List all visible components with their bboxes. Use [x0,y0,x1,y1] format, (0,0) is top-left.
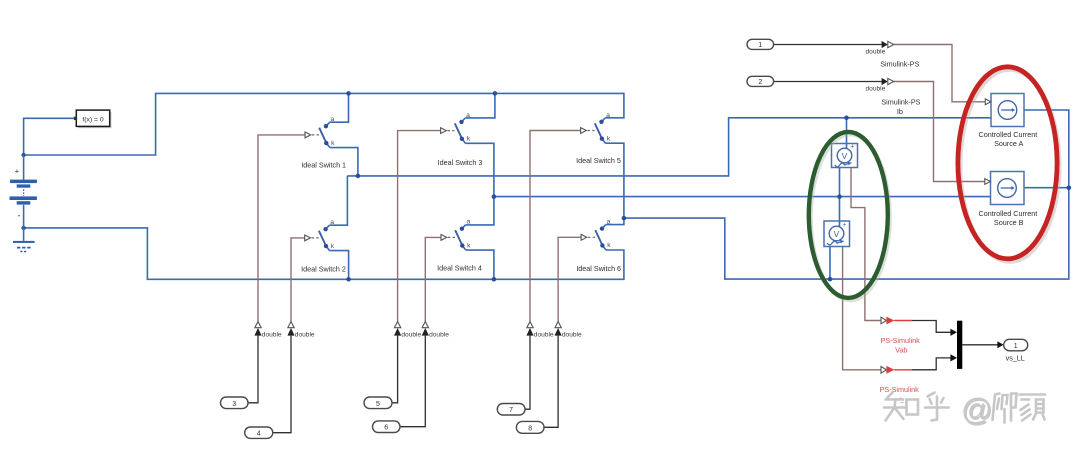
gate converter above port 3 [254,322,261,336]
voltage sensor V1 [832,144,858,168]
svg-text:2: 2 [758,79,762,86]
input port 8 [516,421,544,433]
svg-text:Controlled Current: Controlled Current [979,209,1038,218]
svg-text:Simulink-PS: Simulink-PS [880,59,919,68]
input port 2 [747,76,774,86]
svg-text:Simulink-PS: Simulink-PS [881,97,920,106]
svg-text:double: double [562,331,582,338]
svg-text:+: + [15,167,20,176]
watermark 知乎 @卿颜 [884,392,1046,428]
wire input port 3 to gate converter [248,336,258,403]
input port 5 [364,397,392,409]
annotation green ellipse around voltage sensors [809,132,890,301]
wire node A bus to Controlled Current Source A left port [347,118,991,176]
input port 7 [497,404,525,416]
solver block f(x) = 0 [74,110,112,128]
svg-text:Ib: Ib [897,107,903,116]
converter PS-Simulink Vab arrows [881,317,894,325]
gate converter above port 6 [422,322,429,336]
input port 4 [245,427,273,438]
node bottom bus switch 2 k junction [346,277,351,282]
svg-text:+: + [850,144,854,151]
svg-text:5: 5 [376,401,380,408]
wire Simulink-PS converter 1 output to Controlled Current Source A control input [894,45,985,102]
svg-text:vs_LL: vs_LL [1006,353,1025,362]
wire input port 6 to gate converter [400,336,425,427]
switch U2 Ideal Switch 2 [305,219,335,250]
converter PS-Simulink Vbc arrows [881,366,894,374]
switch U1 Ideal Switch 1 [305,116,335,147]
svg-text:PS-Simulink: PS-Simulink [881,336,921,345]
svg-text:-: - [18,211,21,221]
wire gate converter 4 to Ideal Switch 2 control input [291,238,305,321]
switch U3 Ideal Switch 3 [441,112,471,143]
svg-text:V: V [834,229,840,239]
gate converter above port 4 [287,322,294,336]
battery DC Voltage Source [10,155,37,241]
svg-text:Source A: Source A [994,139,1023,148]
wire node C tap to current source right ports [624,188,1069,279]
output port 1 vs_LL [1004,339,1028,351]
label Controlled Current Source A [979,130,1038,148]
wire input port 8 to gate converter [544,336,558,428]
wire PS-Simulink Vbc converter output to Mux input 2 [894,354,957,370]
wire PS-Simulink Vab converter output to Mux input 1 [894,321,957,336]
svg-text:double: double [865,48,885,55]
op block U8 Controlled Current Source B [985,172,1024,205]
svg-text:double: double [401,331,421,338]
svg-text:1: 1 [758,42,762,49]
svg-text:double: double [865,86,885,93]
switch U4 Ideal Switch 4 [441,219,471,250]
svg-text:Ideal Switch 2: Ideal Switch 2 [301,264,346,273]
wire Ideal Switch 2 k-terminal to bottom bus [330,251,349,280]
wire Voltage Sensor V1 measurement output to PS-Simulink Vab converter [851,165,881,321]
input port 3 [221,397,249,409]
svg-text:Vab: Vab [895,346,907,355]
wire input port 4 to gate converter [273,336,291,433]
converter Simulink-PS 1 triangle [888,41,894,47]
wire Voltage Sensor V2 bottom port to node C line [829,247,831,280]
wire Ideal Switch 1 k-terminal to node A bus [330,148,358,176]
svg-text:7: 7 [509,407,513,414]
node top bus switch 1 junction [346,91,351,96]
node B junction switch 3 k [492,194,497,199]
wire Controlled Current Source A right port to node C riser [1024,110,1069,188]
switch U5 Ideal Switch 5 [581,112,611,143]
wire solver f(x) to battery positive node [24,118,77,155]
wire input port 2 to Simulink-PS Ib converter [774,78,888,85]
svg-text:double: double [534,331,554,338]
gate converter above port 8 [555,322,562,336]
voltage sensor V2 [824,221,850,247]
svg-text:4: 4 [257,431,261,438]
wire gate converter 5 to Ideal Switch 3 control input [398,131,441,322]
svg-text:Ideal Switch 3: Ideal Switch 3 [438,158,483,167]
node current source right ports junction [1067,185,1072,190]
wire Ideal Switch 4 k-terminal to bottom bus [466,250,494,279]
wire node B bus to Controlled Current Source B left port [494,196,991,198]
svg-text:double: double [429,331,449,338]
svg-text:8: 8 [528,425,532,432]
label Controlled Current Source B [979,209,1038,227]
ground electrical reference [13,241,35,252]
input port 1 [747,39,774,49]
node C junction switch 5 k [622,216,627,221]
svg-text:double: double [262,331,282,338]
label PS-Simulink Vbc [880,385,920,405]
svg-text:Ideal Switch 1: Ideal Switch 1 [301,161,346,170]
wire Voltage Sensor V2 measurement output to PS-Simulink Vbc converter [843,244,881,370]
wire gate converter 3 to Ideal Switch 1 control input [258,135,305,321]
node top bus switch 3 junction [493,91,498,96]
wire Controlled Current Source B right port to node C riser [1025,187,1069,189]
annotation red ellipse around controlled current sources [958,67,1060,262]
converter Simulink-PS Ib triangle [888,78,894,84]
wire battery positive to top bus and Ideal Switch 5 a-terminal [24,93,624,155]
svg-text:6: 6 [384,425,388,432]
node bottom bus switch 4 k junction [492,277,497,282]
wire input port 1 to Simulink-PS converter 1 [774,41,888,48]
wire Ideal Switch 5 k-terminal through node C junction to Ideal Switch 6 a-terminal [605,143,624,224]
gate converter above port 5 [394,322,401,336]
svg-text:V: V [842,151,848,161]
svg-text:Source B: Source B [994,218,1024,227]
wire gate converter 6 to Ideal Switch 4 control input [425,237,441,321]
label Simulink-PS Ib [881,97,920,116]
svg-text:Controlled Current: Controlled Current [979,130,1038,139]
node A junction switch 1 k [356,174,361,179]
wire Voltage Sensor V1 bottom port through node B bus to Voltage Sensor V2 top port [839,166,841,227]
wire Ideal Switch 1 a-terminal to top bus [330,93,349,122]
switch U6 Ideal Switch 6 [581,219,611,250]
wire Ideal Switch 3 k-terminal through node B junction to Ideal Switch 4 a-terminal [465,143,494,225]
node B bus voltage sensor junction [837,194,842,199]
wire Simulink-PS Ib converter output to Controlled Current Source B control input [894,82,985,182]
wire Ideal Switch 3 a-terminal to top bus [465,93,495,118]
node C line voltage sensor V2 junction [828,277,833,282]
svg-text:Ideal Switch 6: Ideal Switch 6 [576,264,621,273]
wire battery negative to bottom bus and Ideal Switch 6 k-terminal [24,228,624,279]
svg-text:@: @ [961,392,992,427]
svg-text:+: + [842,222,846,229]
gate converter above port 7 [526,322,533,336]
svg-text:f(x) = 0: f(x) = 0 [82,117,104,124]
wire input port 5 to gate converter [392,336,398,403]
svg-text:1: 1 [1014,343,1018,350]
op block U7 Controlled Current Source A [985,94,1024,127]
node battery positive junction [21,153,25,157]
wire Ideal Switch 2 a-terminal riser to node A bus [329,176,347,225]
svg-text:double: double [295,331,315,338]
label PS-Simulink Vab [881,336,921,355]
svg-text:3: 3 [232,401,236,408]
mux [957,321,962,369]
wire Mux output to output port vs_LL [962,341,1003,348]
svg-text:Ideal Switch 4: Ideal Switch 4 [437,263,482,272]
wire input port 7 to gate converter [525,336,530,410]
svg-text:PS-Simulink: PS-Simulink [880,385,920,394]
input port 6 [373,421,401,433]
node battery negative junction [21,226,25,230]
wire gate converter 7 to Ideal Switch 5 control input [530,131,580,322]
svg-text:Ideal Switch 5: Ideal Switch 5 [576,156,621,165]
node A bus voltage sensor V1 junction [844,116,849,121]
wire node A bus to Voltage Sensor V1 top port [846,118,848,149]
wire gate converter 8 to Ideal Switch 6 control input [558,237,581,321]
